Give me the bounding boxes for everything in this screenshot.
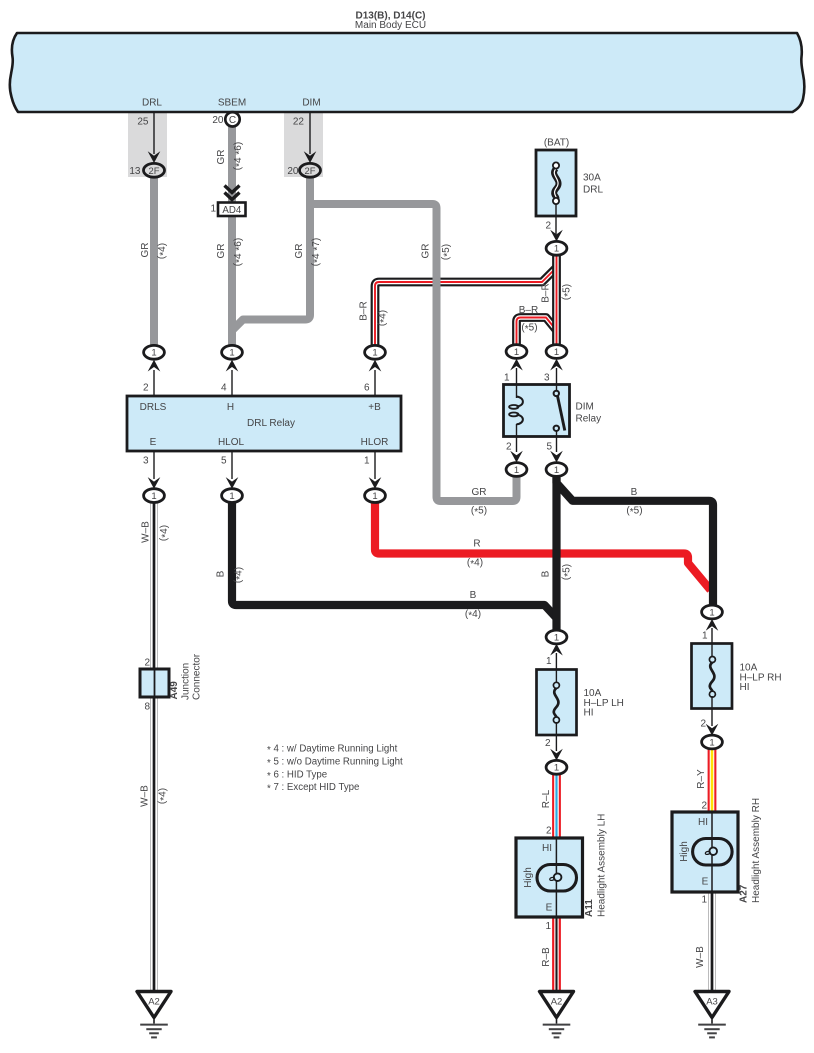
svg-text:1: 1	[709, 607, 714, 618]
svg-text:2: 2	[143, 383, 149, 394]
arrow up into LH fuse connector	[550, 644, 563, 656]
pin 2 lead fuse LH	[555, 722, 557, 751]
svg-text:GR: GR	[294, 244, 305, 259]
fuse 10A H-LP RH element	[709, 657, 715, 698]
svg-text:DRL: DRL	[583, 185, 603, 196]
svg-text:DRL Relay: DRL Relay	[247, 418, 295, 429]
arrow into 2F DIM	[304, 151, 317, 163]
svg-text:C: C	[229, 115, 236, 126]
svg-text:Headlight Assembly RH: Headlight Assembly RH	[751, 798, 762, 903]
svg-text:(*4): (*4)	[233, 567, 246, 583]
pin 2 lead DRL relay DRLS	[153, 370, 155, 396]
svg-text:(*4): (*4)	[467, 558, 483, 571]
wire B (*5) branch: DIM relay pin5 to RH fuse connector	[557, 478, 714, 607]
svg-text:B: B	[470, 590, 477, 601]
arrow up into DRLS connector	[148, 360, 161, 372]
svg-text:GR: GR	[140, 243, 151, 258]
svg-text:(*5): (*5)	[441, 244, 454, 260]
pin 2 lead of fuse 30A	[555, 204, 557, 234]
fuse 30A DRL element	[553, 162, 559, 204]
svg-text:E: E	[546, 903, 553, 914]
wire R-Y: RH fuse to RH headlight	[708, 747, 717, 814]
svg-text:HLOR: HLOR	[361, 437, 389, 448]
pin 3 lead DRL relay E	[153, 451, 155, 479]
headlight assembly LH box A11	[516, 838, 583, 917]
svg-text:1: 1	[554, 763, 559, 774]
pin 1 lead DRL relay HLOR	[374, 451, 376, 479]
fuse 10A H-LP RH HI box	[692, 644, 733, 709]
pin 6 lead DRL relay +B	[374, 370, 376, 396]
node above LH fuse	[546, 630, 567, 644]
node DIM pin2 below	[506, 463, 527, 477]
node below 30A fuse	[546, 241, 567, 255]
svg-text:1: 1	[554, 465, 559, 476]
relay DRL Relay box	[127, 396, 401, 451]
svg-text:(*4 *7): (*4 *7)	[311, 238, 324, 266]
svg-text:1: 1	[514, 347, 519, 358]
svg-text:1: 1	[372, 491, 377, 502]
svg-text:1: 1	[504, 373, 510, 384]
svg-text:13: 13	[129, 166, 141, 177]
svg-text:B–R: B–R	[541, 283, 552, 302]
pin 5 lead DRL relay HLOL	[231, 451, 233, 479]
svg-text:DRLS: DRLS	[140, 402, 167, 413]
svg-text:SBEM: SBEM	[218, 98, 246, 109]
svg-text:HI: HI	[542, 843, 552, 854]
svg-text:5: 5	[221, 456, 227, 467]
svg-text:1: 1	[151, 348, 156, 359]
svg-text:Connector: Connector	[192, 653, 203, 700]
svg-text:E: E	[702, 877, 709, 888]
arrow down into HLOR connector	[369, 477, 382, 489]
fuse 10A H-LP LH HI box	[537, 670, 577, 736]
svg-text:1: 1	[709, 737, 714, 748]
svg-text:Headlight Assembly LH: Headlight Assembly LH	[597, 814, 608, 917]
node H	[222, 345, 243, 359]
arrow down into B*5 connector	[550, 451, 563, 463]
wire R (*4): DRL relay HLOR to RH headlight branch	[375, 500, 711, 590]
svg-text:GR: GR	[421, 244, 432, 259]
svg-text:2: 2	[144, 658, 150, 669]
svg-text:1: 1	[514, 465, 519, 476]
svg-text:(*4 *6): (*4 *6)	[233, 142, 246, 170]
ECU D13(B) D14(C) Main Body ECU band	[10, 33, 804, 112]
svg-text:(*4 *6): (*4 *6)	[233, 238, 246, 266]
pin 2 lead fuse RH	[711, 696, 713, 726]
pin 4 lead DRL relay H	[231, 370, 233, 396]
svg-text:R–L: R–L	[541, 789, 552, 808]
arrow up into +B connector	[369, 360, 382, 372]
junction connector A49 box	[140, 669, 169, 697]
wire B-R (*5) branch to DIM relay pin1	[517, 318, 558, 349]
svg-text:(*4): (*4)	[157, 243, 170, 259]
pin 3 lead DIM relay	[556, 368, 558, 391]
relay DIM Relay box	[504, 385, 570, 437]
arrow up into DIM pin3 connector	[550, 359, 563, 371]
node DRL pin-area shade	[128, 110, 167, 177]
fuse 30A DRL box	[536, 150, 576, 216]
connector 2F (DRL, pin 13)	[144, 163, 165, 177]
svg-text:Main Body ECU: Main Body ECU	[355, 20, 426, 31]
svg-text:1: 1	[554, 347, 559, 358]
wire GR (*4) DRL column	[150, 173, 158, 350]
switch contact of DIM relay	[554, 391, 565, 431]
svg-text:* 7 : Except HID Type: * 7 : Except HID Type	[267, 782, 359, 795]
wire B-R main vertical: DRL fuse to DIM relay pin3	[552, 253, 561, 348]
svg-text:1: 1	[554, 244, 559, 255]
svg-text:5: 5	[546, 442, 552, 453]
svg-text:6: 6	[364, 383, 370, 394]
notes legend	[267, 744, 403, 795]
wire W-B: RH headlight to ground A3	[708, 890, 716, 992]
svg-text:B–R: B–R	[519, 305, 538, 316]
svg-text:(*4): (*4)	[465, 609, 481, 622]
svg-text:A2: A2	[148, 996, 160, 1007]
svg-text:GR: GR	[216, 150, 227, 165]
node below LH fuse	[546, 760, 567, 774]
svg-text:A27: A27	[739, 884, 750, 903]
svg-text:30A: 30A	[583, 173, 601, 184]
wire B-R (*4) branch: fuse node to DRL relay +B	[375, 268, 557, 351]
svg-text:* 6 : HID Type: * 6 : HID Type	[267, 769, 327, 782]
svg-text:25: 25	[137, 117, 149, 128]
arrow down into E connector	[148, 477, 161, 489]
arrow down into LH fuse-bottom connector	[550, 749, 563, 761]
node DIM pin-area shade	[284, 110, 323, 177]
svg-text:1: 1	[554, 632, 559, 643]
svg-text:1: 1	[372, 348, 377, 359]
node DIM pin1	[506, 345, 527, 359]
fuse 10A H-LP LH element	[553, 682, 559, 723]
svg-text:HI: HI	[698, 817, 708, 828]
svg-text:1: 1	[210, 204, 216, 215]
svg-text:20: 20	[287, 166, 299, 177]
svg-text:3: 3	[544, 373, 550, 384]
svg-text:* 5 : w/o Daytime Running Ligh: * 5 : w/o Daytime Running Light	[267, 756, 403, 769]
svg-text:2: 2	[546, 826, 552, 837]
svg-text:B: B	[631, 487, 638, 498]
node E	[144, 489, 165, 503]
node DIM pin5 below	[546, 463, 567, 477]
svg-text:High: High	[679, 841, 690, 862]
node +B	[365, 345, 386, 359]
svg-text:W–B: W–B	[140, 785, 151, 807]
arrow up into H connector	[226, 360, 239, 372]
svg-text:H: H	[227, 402, 234, 413]
svg-text:4: 4	[221, 383, 227, 394]
ground A2 (center)	[540, 992, 574, 1038]
svg-text:Relay: Relay	[576, 414, 602, 425]
svg-text:DIM: DIM	[576, 402, 594, 413]
svg-text:(*5): (*5)	[561, 564, 574, 580]
wire GR (*5) branch from DIM to DIM relay pin2 connector	[311, 204, 517, 501]
svg-text:HI: HI	[584, 708, 594, 719]
svg-text:1: 1	[702, 631, 708, 642]
svg-text:2: 2	[701, 801, 707, 812]
pin 2 lead DIM relay	[516, 424, 518, 452]
svg-text:W–B: W–B	[695, 946, 706, 968]
ground A2 (left)	[137, 992, 171, 1038]
coil of DIM relay	[509, 397, 523, 425]
svg-text:A49: A49	[169, 681, 180, 700]
pin 1 lead fuse RH	[711, 628, 713, 657]
connector 2F (DIM, pin 20)	[300, 163, 321, 177]
svg-text:(BAT): (BAT)	[544, 138, 569, 149]
bulb High RH	[693, 812, 733, 892]
connector C circle (SBEM)	[225, 112, 239, 126]
svg-text:R: R	[473, 539, 480, 550]
svg-text:* 4 : w/ Daytime Running Light: * 4 : w/ Daytime Running Light	[267, 744, 398, 757]
svg-text:(*4): (*4)	[377, 310, 390, 326]
svg-text:(*5): (*5)	[471, 506, 487, 519]
svg-text:W–B: W–B	[141, 521, 152, 543]
svg-text:AD4: AD4	[222, 205, 241, 216]
node DRLS	[144, 345, 165, 359]
svg-text:+B: +B	[368, 402, 381, 413]
svg-text:A11: A11	[584, 899, 595, 917]
svg-text:DIM: DIM	[302, 98, 320, 109]
pin 25 lead from ECU DRL	[153, 112, 155, 154]
svg-text:3: 3	[143, 456, 149, 467]
arrow into 2F DRL	[148, 151, 161, 163]
wire W-B (*4) left column to ground A2	[150, 502, 158, 992]
arrow down into HLOL connector	[226, 477, 239, 489]
node below RH fuse	[702, 735, 723, 749]
svg-text:2: 2	[700, 719, 706, 730]
node HLOR	[365, 489, 386, 503]
svg-text:B–R: B–R	[359, 301, 370, 320]
wire B (*4): DRL relay HLOL to LH fuse junction	[232, 500, 557, 618]
pin 22 lead from ECU DIM	[309, 112, 311, 154]
svg-text:2: 2	[506, 442, 512, 453]
arrow into fuse-30A connector	[550, 230, 563, 242]
headlight assembly RH box A27	[672, 812, 738, 892]
svg-text:B: B	[541, 570, 552, 577]
connector nodes "1" (ellipses)	[144, 241, 723, 774]
connector AD4 box	[218, 203, 246, 217]
svg-text:1: 1	[546, 656, 552, 667]
svg-text:HLOL: HLOL	[218, 437, 245, 448]
svg-text:2F: 2F	[305, 165, 316, 176]
svg-text:8: 8	[144, 702, 150, 713]
svg-text:Junction: Junction	[181, 663, 192, 700]
arrow up into RH junction connector	[706, 619, 719, 631]
svg-text:2F: 2F	[149, 165, 160, 176]
svg-text:High: High	[523, 867, 534, 888]
svg-text:2: 2	[545, 221, 551, 232]
wire GR (*4 *7) DIM column merging into H column	[231, 173, 310, 332]
wire R-L: LH fuse to LH headlight	[552, 772, 561, 840]
svg-text:1: 1	[701, 895, 707, 906]
svg-text:(*5): (*5)	[626, 506, 642, 519]
wire B (*5) vertical: DIM relay pin5 to LH fuse connector	[552, 476, 560, 631]
wire R-B: LH headlight to ground A2	[552, 915, 561, 992]
svg-text:22: 22	[293, 117, 305, 128]
svg-text:1: 1	[151, 491, 156, 502]
shield chevrons above AD4	[225, 186, 240, 200]
svg-text:2: 2	[545, 738, 551, 749]
svg-text:B: B	[216, 570, 227, 577]
svg-text:E: E	[150, 437, 157, 448]
pin 1 lead DIM relay	[516, 368, 518, 398]
svg-text:(*5): (*5)	[561, 284, 574, 300]
svg-text:R–B: R–B	[541, 947, 552, 967]
node DIM pin3	[546, 345, 567, 359]
svg-text:GR: GR	[216, 244, 227, 259]
svg-text:HI: HI	[740, 682, 750, 693]
svg-text:(*5): (*5)	[521, 323, 537, 336]
pin 5 lead DIM relay	[556, 431, 558, 453]
bulb High LH	[537, 838, 577, 917]
ground A3 (right)	[695, 992, 729, 1038]
wire GR (*4 *6) SBEM column	[228, 126, 236, 350]
svg-text:A3: A3	[706, 996, 718, 1007]
svg-text:1: 1	[229, 491, 234, 502]
svg-text:(*4): (*4)	[159, 525, 172, 541]
arrow down into RH fuse-bottom connector	[706, 724, 719, 736]
connector node numerals	[151, 244, 714, 774]
svg-text:20: 20	[212, 115, 224, 126]
svg-text:1: 1	[364, 456, 370, 467]
arrow down into GR*5 connector	[510, 451, 523, 463]
node HLOL	[222, 489, 243, 503]
svg-text:DRL: DRL	[142, 98, 162, 109]
arrow up into DIM pin1 connector	[510, 359, 523, 371]
node RH branch junction	[702, 605, 723, 619]
pin 1 lead fuse LH	[555, 653, 557, 683]
svg-text:R–Y: R–Y	[696, 769, 707, 789]
svg-text:GR: GR	[472, 487, 487, 498]
svg-text:A2: A2	[551, 996, 563, 1007]
svg-text:1: 1	[229, 348, 234, 359]
svg-text:(*4): (*4)	[157, 788, 170, 804]
arrows (male pin markers)	[148, 151, 719, 760]
svg-text:1: 1	[545, 921, 551, 932]
